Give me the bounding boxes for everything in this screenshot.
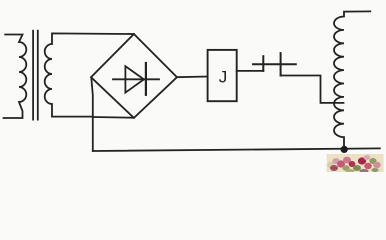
transformer T secondary winding with leads: [45, 33, 134, 116]
breaker contact bridge bar: [253, 63, 296, 65]
diode D cathode bar: [145, 63, 147, 95]
ignition coil L with top lead: [334, 11, 370, 149]
breaker contact left terminal tick: [262, 56, 264, 71]
transformer T primary winding with top and bottom leads: [4, 35, 27, 119]
wire from J box to breaker contact: [237, 70, 264, 72]
wire from contact to ignition coil tap: [281, 76, 344, 103]
wire vertical from node down to bottom rail: [91, 78, 93, 151]
junction dot: [341, 146, 348, 153]
relay coil box J: [208, 50, 237, 101]
transformer core line 1: [32, 31, 34, 120]
wire node to bridge bottom vertex: [93, 116, 134, 119]
svg-text:J: J: [219, 67, 228, 86]
bottom rail wire: [93, 148, 380, 151]
diode D inside bridge: lead: [113, 78, 159, 80]
transformer core line 2: [37, 31, 39, 120]
bridge rectifier diamond: [91, 34, 177, 118]
watermark floral band: [327, 154, 384, 173]
diode D triangle: [125, 66, 143, 92]
wire bridge right vertex to relay box J: [177, 76, 208, 79]
breaker contact right terminal tick: [280, 53, 282, 75]
